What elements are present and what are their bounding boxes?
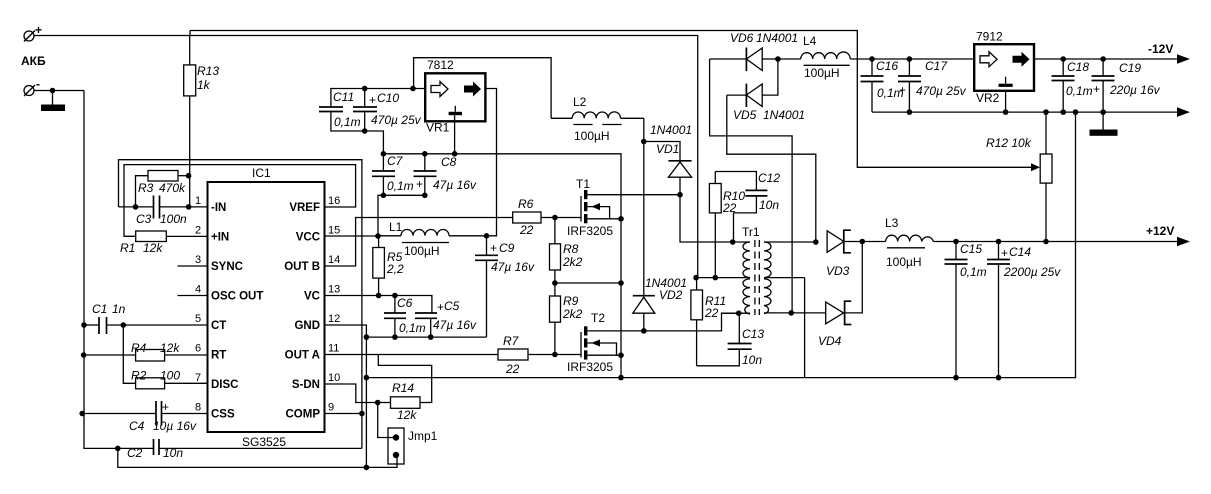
svg-text:C14: C14 — [1009, 245, 1031, 259]
svg-text:+: + — [1001, 246, 1008, 260]
node VCC L1 — [375, 233, 381, 239]
wire VD5 to secondary top — [727, 95, 816, 242]
wire top bus to R12 wiper — [190, 31, 1031, 168]
svg-text:C13: C13 — [742, 327, 764, 341]
pin 4 OSC OUT — [195, 284, 263, 303]
node C19 top — [1100, 56, 1106, 62]
resistor R8 — [550, 218, 583, 297]
capacitor C15 — [945, 242, 987, 378]
svg-text:OUT A: OUT A — [285, 350, 320, 362]
op-amp U1 IC1 SG3525 body — [208, 166, 325, 449]
svg-text:6: 6 — [195, 343, 201, 355]
inductor L3 — [885, 216, 1178, 269]
svg-text:+: + — [437, 300, 444, 314]
node C14 bot — [996, 375, 1002, 381]
capacitor C9 polarized — [475, 236, 535, 337]
node R13 R3 — [186, 173, 192, 179]
svg-text:7912: 7912 — [976, 30, 1003, 44]
node VR2 gnd — [1003, 109, 1009, 115]
svg-text:R8: R8 — [563, 242, 579, 256]
voltage regulator VR2 7912 — [974, 30, 1034, 106]
node R12 bot — [1043, 239, 1049, 245]
svg-text:470k: 470k — [159, 181, 186, 195]
svg-text:VR2: VR2 — [976, 91, 1000, 105]
inductor L2 — [551, 95, 644, 143]
wire T1 drain to primary top — [680, 195, 733, 242]
svg-text:-12V: -12V — [1148, 42, 1173, 56]
resistor R3 — [136, 171, 189, 207]
svg-text:R14: R14 — [392, 381, 414, 395]
svg-text:L1: L1 — [389, 220, 403, 234]
wire VR1 gnd to ground rail — [454, 115, 456, 154]
svg-text:100µH: 100µH — [886, 255, 922, 269]
wire pin1 node — [119, 206, 154, 208]
svg-text:0,1m: 0,1m — [387, 179, 414, 193]
node gndrail VR1 — [452, 151, 458, 157]
node C15 top — [953, 239, 959, 245]
node VC C6 — [392, 293, 398, 299]
node center tap R10 — [713, 275, 719, 281]
svg-text:R13: R13 — [197, 64, 219, 78]
node C10 bot — [362, 128, 368, 134]
node C5 bottom — [428, 334, 434, 340]
svg-text:+: + — [162, 400, 169, 414]
resistor R13 — [184, 36, 220, 207]
svg-text:47µ 16v: 47µ 16v — [433, 178, 477, 192]
node T2 source — [618, 352, 624, 358]
svg-text:IRF3205: IRF3205 — [567, 224, 613, 238]
node R7 R9 gate2 — [552, 352, 558, 358]
diode VD4 — [791, 301, 851, 348]
node C9 top — [484, 233, 490, 239]
node C2 gnd — [115, 446, 121, 452]
capacitor C3 — [136, 196, 187, 227]
ground symbol battery — [41, 91, 65, 112]
wire plus rail to transformer center tap — [190, 36, 698, 278]
svg-text:22: 22 — [505, 362, 520, 376]
node C17 bot — [907, 109, 913, 115]
node secondary bottom VD6 — [788, 310, 794, 316]
node VD5 VD6 L4 — [775, 56, 781, 62]
node VC R5 — [376, 293, 382, 299]
wire outer loop -IN node to COMP — [119, 160, 362, 449]
arrow -12V rail — [1177, 54, 1190, 64]
resistor R6 — [513, 197, 581, 237]
svg-text:C17: C17 — [925, 59, 948, 73]
pin 9 COMP — [286, 402, 335, 421]
svg-text:0,1m: 0,1m — [399, 321, 426, 335]
node C15 bot — [953, 375, 959, 381]
svg-text:10n: 10n — [742, 353, 762, 367]
node C7 bot — [381, 193, 387, 199]
svg-text:10n: 10n — [759, 198, 779, 212]
svg-text:7: 7 — [195, 372, 201, 384]
svg-text:12: 12 — [328, 313, 340, 325]
diode VD2 1N4001 vertical — [633, 118, 687, 331]
capacitor C11 — [319, 89, 383, 154]
svg-text:T2: T2 — [591, 311, 605, 325]
wire mid ground bus — [366, 336, 486, 338]
node C18 top — [1060, 56, 1066, 62]
terminal minus — [24, 77, 40, 96]
pin 3 SYNC — [195, 254, 243, 273]
node VD3 VD4 out — [860, 239, 866, 245]
svg-text:OSC OUT: OSC OUT — [211, 291, 263, 303]
pin 11 OUT A — [285, 343, 340, 362]
svg-text:VD5: VD5 — [733, 108, 757, 122]
svg-text:2k2: 2k2 — [562, 255, 583, 269]
svg-text:22: 22 — [519, 223, 534, 237]
svg-text:T1: T1 — [576, 177, 590, 191]
svg-text:10n: 10n — [163, 446, 183, 460]
capacitor C13 — [697, 313, 765, 367]
svg-text:VD2: VD2 — [659, 288, 683, 302]
svg-text:0,1m: 0,1m — [960, 265, 987, 279]
svg-text:8: 8 — [195, 402, 201, 414]
svg-text:VD1: VD1 — [656, 142, 679, 156]
pin 16 VREF — [289, 195, 340, 214]
node gnd bottombus — [364, 465, 370, 471]
capacitor C10 polarized — [353, 89, 422, 132]
node C4 gnd — [79, 411, 85, 417]
node C10 top — [362, 86, 368, 92]
svg-text:+: + — [369, 93, 376, 107]
node R8 R9 mid — [552, 280, 558, 286]
node gnd rail — [364, 375, 370, 381]
svg-text:1N4001: 1N4001 — [763, 108, 805, 122]
node R3 C3 left — [133, 204, 139, 210]
svg-text:R6: R6 — [518, 197, 534, 211]
svg-text:IC1: IC1 — [252, 166, 271, 180]
wire pin15 VCC — [325, 235, 379, 237]
node center tap bat — [693, 275, 699, 281]
svg-text:L4: L4 — [803, 34, 817, 48]
node C1 gnd — [81, 322, 87, 328]
diode VD5 1N4001 — [727, 59, 805, 122]
svg-text:10: 10 — [328, 372, 340, 384]
svg-text:220µ 16v: 220µ 16v — [1109, 83, 1161, 97]
svg-text:+: + — [490, 241, 497, 255]
svg-text:GND: GND — [294, 320, 320, 332]
node primary bottom — [736, 310, 742, 316]
svg-text:C12: C12 — [758, 171, 780, 185]
pin 6 RT — [195, 343, 226, 362]
diode VD1 1N4001 — [644, 123, 692, 195]
node minus-term gnd — [50, 88, 56, 94]
wire pin12 GND to ground rails — [325, 325, 367, 467]
wire pin11 OUT A to R7 — [325, 354, 499, 356]
svg-text:C9: C9 — [499, 241, 515, 255]
svg-text:12k: 12k — [160, 341, 180, 355]
capacitor C5 polarized — [415, 299, 477, 337]
svg-text:1k: 1k — [197, 78, 211, 92]
svg-text:VCC: VCC — [296, 232, 320, 244]
svg-text:3: 3 — [195, 254, 201, 266]
svg-text:C2: C2 — [127, 446, 143, 460]
svg-text:RT: RT — [211, 350, 226, 362]
svg-text:C18: C18 — [1067, 60, 1089, 74]
resistor R1 — [120, 231, 208, 255]
wire T2 drain to primary bottom — [644, 313, 739, 331]
pin 13 VC — [304, 284, 340, 303]
wire inner loop VREF to R1 — [124, 165, 356, 237]
svg-text:Tr1: Tr1 — [742, 225, 760, 239]
svg-text:+: + — [416, 177, 423, 191]
wire VD4 out riser — [845, 242, 863, 313]
node secondary top VD5 — [813, 239, 819, 245]
svg-text:R12 10k: R12 10k — [986, 136, 1032, 150]
capacitor C17 polarized — [898, 59, 967, 112]
wire plus terminal to R13 node — [34, 35, 190, 37]
wire VR1 input — [365, 88, 426, 90]
svg-text:VC: VC — [304, 291, 320, 303]
wire CT to R2 — [123, 325, 135, 383]
wire minus terminal — [34, 90, 84, 92]
svg-text:R1: R1 — [120, 241, 135, 255]
wire ground bus left — [84, 91, 118, 449]
node C18 bot — [1060, 109, 1066, 115]
ground symbol output — [1090, 112, 1118, 136]
svg-text:14: 14 — [328, 254, 340, 266]
node gndrail C8 — [422, 151, 428, 157]
resistor R7 — [498, 334, 581, 376]
svg-text:-: - — [36, 77, 40, 91]
inductor L4 — [778, 34, 872, 80]
transistor Q1 T1 IRF3205 — [567, 177, 680, 238]
svg-text:100µH: 100µH — [404, 244, 440, 258]
svg-text:C19: C19 — [1119, 61, 1141, 75]
capacitor C4 polarized — [82, 400, 207, 433]
svg-text:100n: 100n — [160, 212, 187, 226]
transformer Tr1 — [696, 225, 816, 315]
pin 12 GND — [294, 313, 340, 332]
svg-text:12k: 12k — [397, 408, 417, 422]
wire bottom bus — [118, 448, 397, 467]
resistor R11 — [691, 278, 726, 366]
svg-text:SG3525: SG3525 — [242, 435, 286, 449]
capacitor C8 polarized — [414, 154, 477, 196]
node CT R2 — [121, 322, 127, 328]
node gnd riser — [1073, 109, 1079, 115]
node gnd midbus — [364, 334, 370, 340]
pin 1 -IN — [195, 195, 226, 214]
svg-text:2k2: 2k2 — [562, 307, 583, 321]
svg-text:9: 9 — [328, 402, 334, 414]
resistor R5 — [373, 236, 404, 296]
svg-text:VD4: VD4 — [818, 334, 842, 348]
svg-text:+: + — [1093, 82, 1100, 96]
wire pin14 OUT B to R6 — [325, 218, 513, 267]
svg-text:470µ 25v: 470µ 25v — [916, 84, 967, 98]
arrow 0V rail — [1177, 107, 1190, 117]
capacitor C1 — [84, 302, 208, 334]
capacitor C2 — [118, 439, 362, 460]
svg-text:13: 13 — [328, 284, 340, 296]
terminal plus АКБ — [24, 23, 42, 42]
wire riser to top bus — [189, 31, 191, 36]
wire pin13 VC node — [325, 295, 379, 297]
svg-text:VD3: VD3 — [826, 264, 850, 278]
node VD1 cathode — [641, 139, 647, 145]
pin 7 DISC — [195, 372, 238, 391]
node COMP — [359, 411, 365, 417]
pin 10 S-DN — [292, 372, 340, 391]
svg-text:47µ 16v: 47µ 16v — [491, 260, 535, 274]
svg-text:АКБ: АКБ — [21, 54, 46, 68]
svg-text:C1: C1 — [92, 302, 107, 316]
svg-text:1N4001: 1N4001 — [650, 123, 692, 137]
svg-text:C3: C3 — [136, 212, 152, 226]
resistor R2 — [131, 369, 208, 389]
svg-text:L3: L3 — [885, 216, 899, 230]
wire ground long rail — [366, 112, 1075, 378]
svg-text:2200µ 25v: 2200µ 25v — [1003, 265, 1061, 279]
wire C7 C8 bottom to VCC node — [378, 195, 425, 236]
node R6 R8 gate1 — [552, 215, 558, 221]
svg-text:2: 2 — [195, 225, 201, 237]
svg-text:C6: C6 — [397, 296, 413, 310]
wire pin4 stub — [178, 295, 208, 297]
node R12 top — [1043, 109, 1049, 115]
svg-text:Jmp1: Jmp1 — [408, 429, 438, 443]
node mid gnd trunk — [618, 280, 624, 286]
svg-text:DISC: DISC — [211, 379, 238, 391]
transistor Q2 T2 IRF3205 — [567, 311, 644, 374]
svg-text:+IN: +IN — [211, 232, 229, 244]
node T1 source — [618, 216, 624, 222]
wire 0V bus — [872, 111, 1178, 113]
resistor R14 — [378, 355, 432, 423]
svg-text:R3: R3 — [138, 181, 154, 195]
svg-text:R4: R4 — [131, 341, 147, 355]
svg-text:5: 5 — [195, 313, 201, 325]
svg-text:C16: C16 — [876, 59, 898, 73]
svg-text:CSS: CSS — [211, 409, 235, 421]
wire R8 R9 mid to ground — [555, 282, 621, 284]
diode VD3 — [826, 230, 851, 278]
svg-text:2,2: 2,2 — [386, 262, 404, 276]
node primary top — [730, 239, 736, 245]
capacitor C7 — [372, 154, 414, 196]
capacitor C6 — [384, 296, 426, 338]
inductor L1 — [378, 220, 487, 258]
wire pin9 COMP — [325, 413, 362, 415]
svg-text:+12V: +12V — [1146, 224, 1174, 238]
arrow +12V rail — [1177, 237, 1190, 247]
svg-text:16: 16 — [328, 195, 340, 207]
svg-text:1N4001: 1N4001 — [756, 31, 798, 45]
wire VD6 to secondary bottom — [710, 59, 793, 313]
svg-text:1n: 1n — [112, 302, 126, 316]
diode VD6 1N4001 — [710, 31, 798, 71]
capacitor C12 — [715, 171, 780, 242]
node VR1 riser — [410, 86, 416, 92]
svg-text:7812: 7812 — [427, 58, 454, 72]
svg-text:C5: C5 — [444, 299, 460, 313]
pin 2 +IN — [195, 225, 229, 244]
svg-text:C7: C7 — [387, 154, 404, 168]
capacitor C14 polarized — [987, 242, 1061, 378]
svg-text:VREF: VREF — [289, 202, 320, 214]
svg-text:VR1: VR1 — [426, 121, 450, 135]
capacitor C18 — [1052, 59, 1093, 112]
jumper Jmp1 — [378, 403, 438, 465]
svg-text:+: + — [899, 83, 906, 97]
wire VR1 input riser to L2 — [414, 58, 551, 119]
svg-text:R2: R2 — [131, 369, 147, 383]
node R4 gnd — [81, 352, 87, 358]
svg-text:-IN: -IN — [211, 202, 226, 214]
node pin1 — [186, 204, 192, 210]
resistor R4 — [84, 341, 208, 361]
pin 15 VCC — [296, 225, 341, 244]
svg-text:OUT B: OUT B — [284, 261, 320, 273]
svg-text:COMP: COMP — [286, 409, 321, 421]
node C8 bot — [422, 193, 428, 199]
svg-text:CT: CT — [211, 320, 226, 332]
svg-text:47µ 16v: 47µ 16v — [433, 318, 477, 332]
svg-text:IRF3205: IRF3205 — [567, 360, 613, 374]
node trunk gndrail — [618, 375, 624, 381]
capacitor C16 — [861, 59, 904, 112]
wire VR2 output -12V — [1034, 58, 1178, 60]
wire pin3 stub — [178, 265, 208, 267]
wire VR2 gnd pin — [1005, 91, 1007, 112]
svg-text:1: 1 — [195, 195, 201, 207]
svg-text:11: 11 — [328, 343, 339, 355]
svg-text:C4: C4 — [129, 419, 145, 433]
node gndrail C7 — [381, 151, 387, 157]
wire L4 to VR2 input — [872, 58, 974, 60]
wire ground top rail C7 C8 top — [383, 154, 621, 378]
svg-text:100: 100 — [160, 369, 180, 383]
svg-text:4: 4 — [195, 284, 201, 296]
svg-text:C11: C11 — [333, 90, 354, 104]
resistor R9 — [550, 294, 583, 355]
svg-text:10µ 16v: 10µ 16v — [153, 419, 197, 433]
node T1 drain VD1 — [677, 192, 683, 198]
potentiometer R12 10k — [986, 112, 1052, 241]
svg-text:R7: R7 — [503, 334, 520, 348]
pin 5 CT — [195, 313, 226, 332]
svg-text:VD6: VD6 — [730, 31, 754, 45]
pin 8 CSS — [195, 402, 235, 421]
wire VR1 output — [485, 89, 496, 236]
node C14 top — [996, 239, 1002, 245]
svg-text:15: 15 — [328, 225, 340, 237]
voltage regulator VR1 7812 — [425, 58, 485, 135]
svg-text:L2: L2 — [573, 95, 587, 109]
svg-text:C8: C8 — [441, 155, 457, 169]
svg-text:SYNC: SYNC — [211, 261, 243, 273]
resistor R10 — [709, 172, 745, 278]
svg-text:0,1m: 0,1m — [1066, 84, 1093, 98]
svg-text:C10: C10 — [377, 91, 399, 105]
svg-text:0,1m: 0,1m — [334, 115, 361, 129]
pin 14 OUT B — [284, 254, 340, 273]
svg-text:470µ 25v: 470µ 25v — [371, 113, 422, 127]
svg-text:12k: 12k — [143, 241, 163, 255]
node C19 bot gnd — [1100, 109, 1106, 115]
svg-text:C15: C15 — [960, 242, 982, 256]
node SDN R14 — [375, 400, 381, 406]
svg-text:22: 22 — [704, 306, 719, 320]
wire VD3 out to L3 — [844, 241, 886, 243]
svg-text:R9: R9 — [563, 294, 579, 308]
node C6 bottom — [392, 334, 398, 340]
svg-text:100µH: 100µH — [574, 129, 610, 143]
node T2 drain VD2 — [641, 328, 647, 334]
